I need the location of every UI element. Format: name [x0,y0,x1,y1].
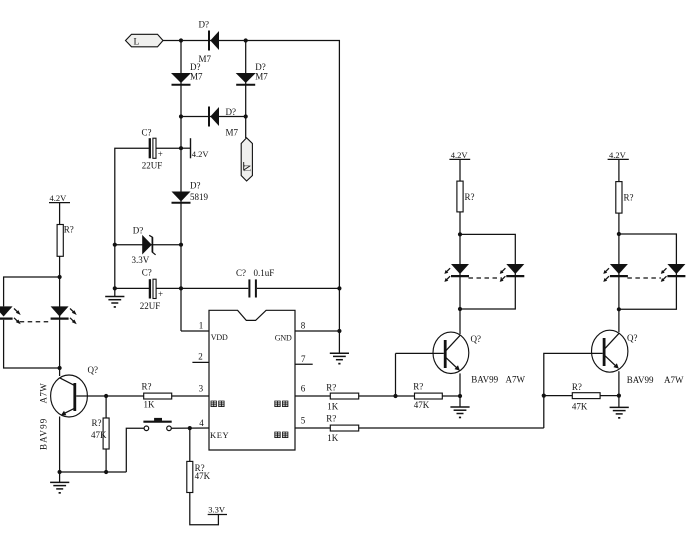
svg-text:D?: D? [190,181,201,191]
power 4.2V section3 [608,150,629,182]
svg-text:4: 4 [199,418,204,428]
switch S1 pushbutton [143,418,171,431]
svg-text:47K: 47K [91,430,107,440]
svg-text:3: 3 [199,384,204,394]
wire R7 to LED box2 [459,212,461,235]
svg-text:GND: GND [275,334,292,343]
wire R9 to LED box3 [618,213,620,234]
svg-text:L: L [134,37,140,47]
svg-text:R?: R? [624,192,634,202]
LED LED6 [500,264,525,282]
junction Q2 emitter [458,394,462,398]
junction C2 left [113,286,117,290]
capacitor C3 0.1uF [236,268,339,297]
pin 5 green-lamp [275,415,306,437]
svg-text:BAV99: BAV99 [627,375,654,385]
ground pin8 [330,353,349,364]
svg-text:M7: M7 [226,128,239,138]
svg-text:C?: C? [142,267,152,277]
wire LED box3 frame [619,234,677,309]
svg-text:Q?: Q? [627,333,638,343]
wire riser3 to R10 [544,395,573,397]
svg-text:R?: R? [465,192,475,202]
svg-text:M7: M7 [255,72,268,82]
wire coupling dashed [20,321,50,323]
junction cap net [337,286,341,290]
svg-text:47K: 47K [414,400,430,410]
svg-text:1: 1 [199,321,204,331]
junction R2 bottom [104,470,108,474]
svg-text:+: + [158,289,163,299]
junction LED box top [58,275,62,279]
svg-text:A7W: A7W [664,375,684,385]
wire pin6 net [295,395,330,397]
junction riser2 [393,394,397,398]
wire Q1 emitter [59,417,61,483]
svg-text:A7W: A7W [506,374,526,384]
svg-text:R?: R? [413,382,423,392]
wire pin5 net [295,427,330,429]
pin 7 stub [295,354,313,365]
net label L [126,34,164,47]
transistor Q2 [433,332,481,373]
junction C1 right [179,146,183,150]
wire LED box3 left rail [618,234,620,332]
svg-text:Q?: Q? [88,365,99,375]
resistor R9 [616,182,634,214]
svg-text:4.2V: 4.2V [451,150,469,160]
junction C2 right [179,286,183,290]
resistor R10 47K [572,382,619,411]
junction bridge mid-left [179,114,183,118]
ground Q1 [50,482,69,493]
svg-text:4.2V: 4.2V [609,150,627,160]
wire coupling dashed 2 [469,277,502,279]
pin 1 VDD [199,321,228,342]
svg-text:4.2V: 4.2V [192,149,210,159]
op-amp U1 box [209,310,295,450]
resistor R4 47K [187,428,211,492]
svg-text:3.3V: 3.3V [132,255,150,265]
svg-text:R?: R? [142,382,152,392]
diode D5 5819 [172,181,209,203]
svg-text:BAV99: BAV99 [471,374,498,384]
pin 3 red-lamp [199,384,224,407]
wire top to right corner [246,41,340,354]
pin 4 KEY [199,418,229,440]
wire LED box2 frame [460,234,515,309]
wire gnd row [60,471,127,473]
svg-text:3.3V: 3.3V [208,505,226,515]
capacitor C2 22UF [115,267,181,311]
resistor R6 1K [326,414,544,443]
resistor R8 47K [413,382,460,410]
wire bridge left rail [180,41,182,332]
wire coupling dashed 3 [627,277,661,279]
wire button left [126,428,144,472]
junction LED box2 top [458,232,462,236]
wire bridge right rail [245,41,247,139]
wire L to bridge [163,40,181,42]
svg-text:R?: R? [64,224,74,234]
wire C3 row [181,287,248,289]
pin 8 GND [275,321,340,343]
wire R1 to LED box [59,256,61,277]
junction emitter gnd [58,470,62,474]
ground Q2 [450,407,469,418]
diode D3 M7 right vertical [236,62,269,85]
transistor Q1 [51,365,98,417]
wire LED box2 left rail [459,234,461,334]
power 4.2V section2 [449,150,470,181]
power 4.2V section1 [49,193,70,224]
svg-text:N: N [244,165,254,172]
power 4.2V tick [181,138,209,159]
svg-text:1K: 1K [144,400,156,410]
resistor R3 1K [142,382,210,410]
svg-text:C?: C? [236,268,246,278]
power 3.3V [208,505,227,515]
wire button right to pin4 [171,427,209,429]
svg-text:47K: 47K [195,471,211,481]
wire zener row [115,244,181,246]
svg-text:5819: 5819 [190,192,209,202]
svg-text:4.2V: 4.2V [50,193,68,203]
resistor R5 1K [326,382,414,411]
junction LED box3 top [617,232,621,236]
junction LED box bottom [58,366,62,370]
wire cap C1 left [115,148,149,296]
wire Q2 emitter [459,373,461,407]
svg-text:22UF: 22UF [140,301,161,311]
diode D1 M7 top [199,20,220,64]
svg-text:8: 8 [301,321,306,331]
ground Q3 [610,407,629,418]
svg-text:D?: D? [226,107,237,117]
LED LED5 [444,264,469,282]
pin 6 blue-lamp [275,384,306,407]
junction R2 top [104,394,108,398]
svg-text:0.1uF: 0.1uF [254,268,275,278]
resistor R1 [57,224,74,256]
svg-text:Q?: Q? [471,334,482,344]
svg-text:VDD: VDD [211,333,228,342]
svg-text:D?: D? [199,20,210,30]
svg-text:C?: C? [142,127,152,137]
wire LED box left bottom [4,320,60,368]
svg-text:1K: 1K [327,433,339,443]
junction pin8 net [337,329,341,333]
transistor Q3 [592,330,638,372]
junction pin4 [188,426,192,430]
junction LED box3 bottom [617,307,621,311]
svg-text:A7W: A7W [39,383,49,404]
junction riser3 [542,394,546,398]
svg-text:5: 5 [301,415,306,425]
wire R4 to 3.3V [190,493,219,525]
svg-text:R?: R? [572,382,582,392]
svg-text:1K: 1K [327,401,339,411]
LED LED2 [51,306,77,324]
wire Q2 base riser [395,353,397,396]
zener diode D6 3.3V [132,225,156,265]
ground left rail [105,297,124,308]
junction zener left [113,243,117,247]
diode D2 M7 left vertical [171,62,203,85]
wire LED box top [4,277,60,306]
svg-text:R?: R? [326,382,336,392]
svg-text:7: 7 [301,354,306,364]
junction zener right [179,243,183,247]
junction bridge top-left [179,38,183,42]
junction bridge mid-right [244,114,248,118]
junction bridge top-right [244,38,248,42]
junction LED box2 bottom [458,307,462,311]
resistor R2 47K [91,396,109,472]
svg-text:R?: R? [326,414,336,424]
LED LED1 [0,306,21,324]
svg-text:+: + [158,149,163,159]
svg-text:BAV99: BAV99 [39,418,49,450]
resistor R7 [457,181,475,212]
svg-text:D?: D? [133,225,144,235]
wire Q3 base riser [544,353,603,428]
junction Q3 emitter [617,394,621,398]
svg-text:22UF: 22UF [142,160,163,170]
svg-text:KEY: KEY [210,430,229,440]
wire Q3 emitter [618,371,620,407]
svg-text:2: 2 [198,352,203,362]
LED LED7 [603,264,628,282]
svg-text:M7: M7 [190,72,203,82]
capacitor C1 22UF [142,127,182,170]
wire Q2 base [396,352,444,354]
wire bridge middle [181,116,246,118]
wire Q1 base [76,395,144,397]
svg-text:47K: 47K [572,401,588,411]
pin 2 stub [192,352,209,363]
wire bridge top [181,40,246,42]
svg-text:6: 6 [301,384,306,394]
net label N [241,138,253,181]
wire pin1 [181,330,209,332]
LED LED8 [661,264,686,282]
wire LED box right rail [59,277,61,376]
svg-text:R?: R? [92,418,102,428]
diode D4 M7 bottom [209,107,239,138]
